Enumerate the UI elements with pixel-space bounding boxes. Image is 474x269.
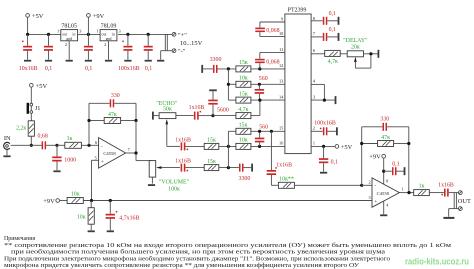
- node op-amp2 inverting input: [360, 184, 363, 187]
- svg-text:10...15V: 10...15V: [180, 40, 203, 47]
- svg-text:3300: 3300: [239, 176, 251, 182]
- ground delay pot: [378, 50, 380, 58]
- capacitor C4 100x16V electrolytic: [118, 34, 140, 71]
- wire mic node to C6: [31, 144, 41, 146]
- svg-text:47к: 47к: [108, 112, 117, 118]
- node bus top row12: [227, 67, 230, 70]
- capacitor 100x16V pin2 electrolytic: [314, 121, 336, 136]
- svg-text:10х16В: 10х16В: [19, 66, 38, 72]
- ground op-amp2 pin4: [380, 214, 387, 216]
- svg-text:"+": "+": [178, 32, 187, 39]
- ground pin7 cap: [338, 33, 340, 41]
- resistor 10k bias lower: [77, 201, 94, 231]
- svg-text:0,1: 0,1: [331, 159, 338, 165]
- svg-text:in: in: [112, 32, 115, 36]
- ground 78L05: [66, 60, 73, 62]
- svg-text:C4558: C4558: [377, 191, 390, 196]
- wire op-amp2 feedback riser left: [361, 127, 363, 186]
- svg-text:"DELAY": "DELAY": [343, 38, 368, 44]
- svg-text:0,068: 0,068: [266, 59, 279, 65]
- node pin1: [322, 145, 325, 148]
- svg-text:0,1: 0,1: [392, 161, 399, 167]
- svg-text:1x16В: 1x16В: [189, 105, 205, 111]
- node bias opamp1: [90, 199, 93, 202]
- svg-text:10к**: 10к**: [279, 176, 294, 182]
- wire bus lower segment: [227, 131, 229, 167]
- terminal +9V (top): [87, 13, 105, 34]
- svg-text:13: 13: [279, 79, 283, 84]
- potentiometer ECHO 50k: [152, 101, 194, 146]
- svg-text:1000: 1000: [64, 157, 76, 163]
- capacitor C1 10x16V electrolytic: [19, 34, 38, 71]
- wire top +5V rail: [28, 33, 61, 35]
- node junction +9V: [87, 33, 90, 36]
- wire pin4 to pin3: [311, 84, 324, 100]
- capacitor C7 1000: [52, 145, 76, 170]
- svg-text:Примечания: Примечания: [4, 236, 35, 242]
- op-amp U1.2 C4558: [95, 138, 131, 169]
- svg-text:IN: IN: [4, 135, 11, 142]
- svg-text:8: 8: [313, 16, 315, 21]
- jumper J1: [27, 103, 41, 121]
- svg-text:330: 330: [111, 93, 120, 99]
- resistor 1k input: [65, 136, 99, 148]
- capacitor 560 rows15-16: [255, 125, 268, 147]
- capacitor C5 0,1: [144, 34, 153, 71]
- capacitor 1x16V volume electrolytic: [175, 159, 204, 172]
- node junction C4: [126, 33, 129, 36]
- IC U2 PT2399: [279, 8, 316, 154]
- svg-text:8: 8: [386, 178, 388, 183]
- wire node to R 1k: [57, 144, 65, 146]
- svg-text:3: 3: [79, 29, 81, 34]
- svg-text:0,1: 0,1: [329, 27, 336, 33]
- svg-text:0,1: 0,1: [329, 11, 336, 17]
- wire op-amp2 ground pin4: [383, 201, 385, 214]
- svg-text:15к: 15к: [207, 138, 216, 144]
- capacitor 3300 upper (pin12 row): [201, 57, 236, 73]
- ground C2: [45, 60, 52, 62]
- node feedback right: [134, 119, 137, 122]
- capacitor 0,1 pin7: [323, 27, 338, 41]
- svg-text:4,7х16В: 4,7х16В: [119, 216, 139, 222]
- capacitor 330 feedback op-amp2: [362, 117, 409, 193]
- wire pin2: [311, 130, 323, 132]
- ground pin2 cap: [336, 127, 338, 135]
- wire bus upper segment: [227, 69, 229, 100]
- node feedback left: [87, 119, 90, 122]
- svg-text:3: 3: [368, 195, 370, 200]
- ground 3300 lower: [251, 164, 253, 172]
- ground pin1 cap: [320, 172, 327, 174]
- svg-text:При подключении электретного м: При подключении электретного микрофона н…: [4, 255, 390, 262]
- svg-text:5600: 5600: [217, 108, 229, 114]
- svg-text:3: 3: [313, 94, 315, 99]
- svg-text:0,1: 0,1: [85, 66, 92, 72]
- svg-text:** сопротивление резистора 10: ** сопротивление резистора 10 кОм на вхо…: [4, 242, 451, 249]
- svg-text:12: 12: [279, 63, 283, 68]
- svg-text:0,1: 0,1: [145, 66, 152, 72]
- ground C5: [145, 60, 152, 62]
- svg-text:330: 330: [380, 117, 389, 123]
- wire pin3: [311, 99, 335, 101]
- node bias cap: [109, 199, 112, 202]
- node op-amp2 feedback left: [360, 142, 363, 145]
- capacitor 0,068 pins11-12: [255, 52, 285, 69]
- regulator 78L09: [96, 23, 120, 59]
- wire 5600 node to 4,7k: [213, 115, 236, 117]
- svg-text:gnd: gnd: [66, 37, 72, 41]
- svg-text:11: 11: [279, 47, 283, 52]
- ground input minus: [157, 60, 164, 62]
- svg-text:10к: 10к: [77, 214, 86, 220]
- ground pin3: [335, 96, 337, 104]
- svg-text:C4558: C4558: [103, 151, 116, 156]
- ground 5600 (above): [209, 89, 217, 91]
- svg-text:4,7к: 4,7к: [238, 107, 248, 113]
- svg-text:100x16В: 100x16В: [314, 121, 336, 127]
- resistor 1k output: [414, 184, 444, 196]
- node bus row16: [227, 145, 230, 148]
- svg-text:+9V: +9V: [369, 154, 381, 161]
- svg-text:1к: 1к: [419, 184, 425, 190]
- svg-text:1x16В: 1x16В: [438, 183, 454, 189]
- svg-text:15к: 15к: [239, 123, 248, 129]
- ground 78L09: [105, 60, 112, 62]
- capacitor 3300 lower: [239, 164, 252, 182]
- wire output tap riser: [270, 131, 272, 170]
- wire pin8: [311, 20, 323, 22]
- node op-amp2 output: [407, 191, 410, 194]
- svg-text:+5V: +5V: [32, 13, 44, 20]
- svg-text:50к: 50к: [163, 107, 172, 113]
- capacitor 1x16V echo pot electrolytic: [189, 105, 213, 120]
- node pins3-4: [323, 99, 326, 102]
- svg-text:radio-kits.ucoz.ru: radio-kits.ucoz.ru: [405, 257, 469, 267]
- node 5600 junction: [211, 114, 214, 117]
- svg-text:0,1: 0,1: [45, 66, 52, 72]
- resistor 47k feedback op-amp2: [362, 135, 409, 147]
- ground pin8 cap: [338, 17, 340, 25]
- node 560 bottom row16: [258, 145, 261, 148]
- capacitor 5600 shunt to ground (up): [208, 91, 229, 115]
- svg-text:0,68: 0,68: [38, 134, 48, 140]
- svg-text:100х16В: 100х16В: [118, 66, 140, 72]
- wire feedback riser left: [88, 103, 90, 145]
- terminal "-" input: [161, 48, 186, 59]
- terminal +5V (mic bias): [29, 83, 47, 103]
- svg-text:OUT: OUT: [458, 198, 471, 205]
- capacitor 0,1 pin1: [319, 146, 338, 171]
- svg-text:100к: 100к: [168, 187, 180, 193]
- capacitor 1x16V echo wiper electrolytic: [175, 137, 204, 150]
- capacitor C2 0,1: [44, 34, 53, 71]
- potentiometer VOLUME 100k: [149, 161, 189, 193]
- ground C7: [53, 170, 60, 172]
- terminal +5V (top left): [26, 13, 44, 34]
- terminal OUT ground: [449, 207, 462, 217]
- svg-text:78L05: 78L05: [61, 23, 77, 29]
- capacitor 330 feedback op-amp1: [89, 93, 136, 121]
- svg-text:5: 5: [95, 155, 97, 160]
- svg-text:+5V: +5V: [341, 144, 353, 151]
- svg-text:при необходимости получения бо: при необходимости получения большего уси…: [11, 249, 386, 256]
- svg-text:15к: 15к: [239, 60, 248, 66]
- node op-amp2 supply: [382, 170, 385, 173]
- resistor 15k row12: [236, 60, 285, 72]
- svg-text:10: 10: [279, 31, 283, 36]
- terminal +5V pin1: [335, 144, 353, 151]
- svg-text:+9V: +9V: [93, 13, 105, 20]
- wire op-amp1 output: [126, 121, 152, 161]
- svg-text:3: 3: [119, 29, 121, 34]
- ground op-amp2 supply cap: [404, 167, 406, 175]
- wire op-amp2 output: [399, 192, 413, 194]
- svg-text:15: 15: [279, 126, 283, 131]
- capacitor C6 0,68: [38, 134, 58, 150]
- svg-text:560: 560: [259, 125, 268, 131]
- svg-text:+: +: [374, 200, 377, 205]
- capacitor 1x16V output electrolytic: [438, 183, 458, 197]
- svg-text:9: 9: [281, 16, 283, 21]
- capacitor 1x16V output tap electrolytic: [267, 162, 292, 185]
- terminal OUT signal: [458, 191, 462, 195]
- svg-text:10к: 10к: [239, 76, 248, 82]
- resistor 47k feedback op-amp1: [89, 112, 136, 124]
- node 560 top row13: [258, 83, 261, 86]
- resistor 4,7k delay: [325, 50, 348, 65]
- ground VOLUME: [148, 184, 155, 186]
- svg-text:0,068: 0,068: [266, 28, 279, 34]
- resistor 4,7k mix: [236, 100, 260, 119]
- node 560 top row15: [258, 130, 261, 133]
- node C6/C7 junction: [55, 144, 58, 147]
- connector OUT bracket: [454, 193, 456, 209]
- wire rail between regulators: [78, 33, 101, 35]
- ground C4: [124, 60, 131, 62]
- wire rail right of 78L09: [118, 33, 172, 35]
- svg-text:PT2399: PT2399: [288, 8, 307, 14]
- svg-text:2: 2: [368, 180, 370, 185]
- terminal +9V op-amp2: [369, 154, 385, 184]
- node op-amp1 inverting input: [87, 144, 90, 147]
- svg-text:"VOLUME": "VOLUME": [159, 179, 190, 185]
- svg-text:1: 1: [57, 29, 59, 34]
- resistor 15k row15: [228, 123, 285, 135]
- svg-text:4,7к: 4,7к: [328, 59, 338, 65]
- capacitor 560 rows13-14: [255, 76, 268, 100]
- node junction +5V: [26, 33, 29, 36]
- svg-text:2: 2: [104, 42, 106, 47]
- capacitor C3 0,1: [84, 34, 93, 71]
- ground 10k bias: [88, 230, 95, 232]
- svg-text:10к: 10к: [239, 138, 248, 144]
- ground IN jack: [3, 155, 10, 157]
- wire op-amp1 + input: [92, 160, 99, 200]
- node bus row13: [227, 83, 230, 86]
- svg-text:+5V: +5V: [36, 83, 48, 90]
- ground OUT: [443, 217, 454, 219]
- ground C1: [24, 60, 31, 62]
- svg-text:560: 560: [259, 76, 268, 82]
- node junction C5: [147, 33, 150, 36]
- svg-text:1: 1: [313, 141, 315, 146]
- regulator 78L05: [57, 23, 81, 59]
- node 0,068 bottom row12: [258, 67, 261, 70]
- wire op-amp2 input stub: [362, 184, 372, 186]
- node output tap row15: [270, 130, 273, 133]
- resistor 10k** to op-amp2: [278, 176, 361, 188]
- wire pin7: [311, 36, 323, 38]
- svg-text:1к: 1к: [67, 136, 73, 142]
- node row14 junction: [258, 99, 261, 102]
- terminal "+" input: [172, 32, 187, 39]
- svg-text:"-": "-": [178, 48, 186, 55]
- node junction C2: [47, 33, 50, 36]
- svg-text:1x16В: 1x16В: [175, 159, 191, 165]
- resistor 15k echo wiper row: [204, 138, 236, 150]
- capacitor 4,7x16V bias electrolytic: [106, 201, 140, 231]
- node bus bottom: [227, 166, 230, 169]
- resistor 2,2k: [16, 121, 34, 146]
- resistor 10k row16: [236, 138, 285, 150]
- capacitor 0,1 pin8: [323, 11, 338, 25]
- svg-text:1x16В: 1x16В: [175, 137, 191, 143]
- wire pin6: [311, 53, 325, 55]
- op-amp U1.1 C4558: [368, 178, 403, 208]
- svg-text:3300: 3300: [210, 57, 222, 63]
- svg-text:78L09: 78L09: [101, 23, 117, 29]
- wire pin1: [311, 145, 335, 147]
- resistor 10k row13: [228, 76, 285, 88]
- resistor 15k volume row: [204, 159, 239, 171]
- capacitor 0,068 pins9-10: [255, 22, 285, 37]
- ground C3: [85, 60, 92, 62]
- svg-text:J1: J1: [35, 105, 41, 112]
- node op-amp2 feedback right: [407, 142, 410, 145]
- potentiometer DELAY 20k: [343, 38, 377, 68]
- svg-text:47к: 47к: [381, 135, 390, 141]
- node mic input junction: [30, 144, 33, 147]
- ground bias cap: [107, 230, 114, 232]
- resistor 10k bias upper: [67, 192, 372, 204]
- capacitor 0,1 op-amp2 supply: [384, 161, 404, 175]
- svg-text:15к: 15к: [239, 91, 248, 97]
- svg-text:1: 1: [96, 29, 98, 34]
- svg-text:10к: 10к: [71, 192, 80, 198]
- node delay pot right: [369, 52, 372, 55]
- svg-text:15к: 15к: [207, 159, 216, 165]
- svg-text:1x16В: 1x16В: [276, 162, 292, 168]
- svg-text:2: 2: [65, 42, 67, 47]
- svg-text:20к: 20к: [351, 44, 360, 50]
- resistor 15k row14: [228, 91, 285, 103]
- svg-text:микрофона придется увеличить с: микрофона придется увеличить сопротивлен…: [4, 262, 360, 269]
- svg-text:in: in: [72, 32, 75, 36]
- terminal +9V (bias): [43, 198, 67, 205]
- connector IN jack: [4, 135, 32, 155]
- svg-text:+9V: +9V: [43, 198, 55, 205]
- svg-text:2,2к: 2,2к: [16, 126, 26, 132]
- node op-amp1 output: [134, 151, 137, 154]
- svg-text:1: 1: [402, 186, 404, 191]
- svg-text:gnd: gnd: [106, 37, 112, 41]
- connector power input bracket: [165, 34, 167, 50]
- svg-text:+: +: [101, 160, 104, 165]
